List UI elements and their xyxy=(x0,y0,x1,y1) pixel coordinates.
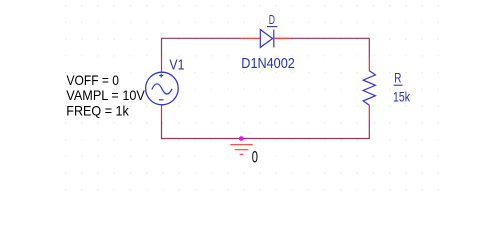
svg-text:15k: 15k xyxy=(393,89,411,105)
diode anode pin xyxy=(241,37,260,39)
wire bottom rail xyxy=(161,138,370,140)
svg-text:R: R xyxy=(394,69,401,85)
svg-text:0: 0 xyxy=(252,148,258,166)
V1 pin 1 (top) xyxy=(161,56,163,73)
resistor R pin 2 (bottom) xyxy=(368,105,370,121)
voltage source V1 body xyxy=(146,72,179,105)
junction node at ground xyxy=(239,136,244,141)
svg-text:V1: V1 xyxy=(169,57,184,74)
V1 pin 2 (bottom) xyxy=(161,105,163,121)
wire diode cathode to resistor top xyxy=(290,38,370,58)
wire resistor bottom to bottom rail xyxy=(368,121,370,139)
svg-text:VOFF = 0: VOFF = 0 xyxy=(67,72,120,88)
diode cathode pin xyxy=(274,37,290,39)
svg-text:D: D xyxy=(269,12,275,27)
R reference label xyxy=(394,69,403,85)
svg-text:FREQ = 1k: FREQ = 1k xyxy=(66,102,129,118)
wire V1 top to diode anode xyxy=(162,38,242,55)
resistor R pin 1 (top) xyxy=(368,58,370,71)
ground symbol 0 xyxy=(230,145,252,155)
svg-text:D1N4002: D1N4002 xyxy=(241,55,294,72)
wire V1 bottom xyxy=(161,121,163,139)
resistor R body xyxy=(363,71,375,106)
D reference label xyxy=(267,12,277,27)
diode D body xyxy=(260,30,274,48)
svg-text:VAMPL = 10V: VAMPL = 10V xyxy=(66,87,145,103)
